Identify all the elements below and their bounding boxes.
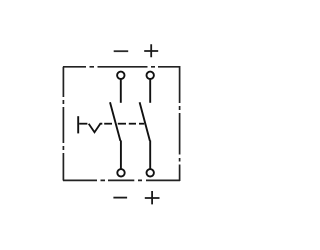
wire: pole 2 top stub — [149, 80, 151, 103]
actuator bar — [77, 116, 79, 133]
mechanical link dash 4 — [129, 123, 136, 125]
label: minus polarity (bottom) — [113, 197, 127, 199]
enclosure boundary left edge (dash-dot) — [62, 67, 64, 181]
wire: pole 2 bottom — [149, 141, 151, 169]
wire: pole 1 top stub — [120, 80, 122, 103]
mechanical link dash (bar to notch) — [79, 123, 87, 125]
wire: pole 1 bottom — [120, 141, 122, 169]
latch notch (v) — [89, 124, 103, 133]
mechanical link dash 3 — [118, 123, 126, 125]
label: plus polarity (bottom) — [145, 191, 160, 204]
label: plus polarity (top) — [144, 44, 158, 57]
enclosure boundary right edge (dash-dot) — [179, 66, 181, 181]
terminal circle: pole 1 bottom — [117, 169, 124, 176]
switch blade: pole 1 — [110, 102, 120, 141]
mechanical link dash 2 — [104, 123, 112, 125]
terminal circle: pole 2 bottom — [147, 169, 154, 176]
enclosure boundary top edge (dash-dot) — [63, 66, 180, 68]
mechanical link dash 5 (meets pole 2 blade) — [139, 123, 144, 125]
switch blade: pole 2 — [140, 102, 150, 141]
enclosure boundary bottom edge (dash-dot) — [63, 179, 180, 181]
terminal circle: pole 1 top — [117, 72, 124, 79]
label: minus polarity (top) — [114, 50, 129, 52]
terminal circle: pole 2 top — [147, 72, 154, 79]
